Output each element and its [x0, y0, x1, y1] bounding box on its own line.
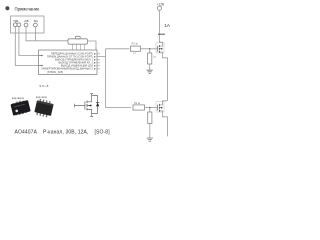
tick on supply wire	[158, 33, 165, 35]
wire R1 to gate	[141, 48, 158, 50]
svg-text:вид сверху: вид сверху	[12, 97, 25, 100]
body diode loop	[92, 96, 98, 114]
IC photo right	[34, 98, 54, 118]
wire to R2	[106, 107, 132, 109]
diode bar	[96, 102, 99, 104]
wire T2 to component X1	[26, 27, 68, 41]
legend MOSFET symbol	[75, 94, 100, 117]
svg-text:Примечание: Примечание	[15, 6, 40, 11]
node junction 1	[149, 48, 151, 50]
ground 1	[147, 70, 153, 73]
terminal T1 double circle	[13, 23, 17, 27]
wire terminal to Q1 drain	[159, 10, 162, 42]
power terminal	[157, 6, 161, 10]
source lead	[87, 109, 93, 116]
svg-text:10к: 10к	[153, 57, 156, 59]
wire R4 to ground	[149, 124, 151, 139]
wire T1b to MCU box	[19, 27, 39, 56]
X1 legs	[72, 44, 84, 50]
transistor Q1	[157, 46, 159, 52]
resistor R2	[133, 105, 145, 110]
ground 2	[147, 138, 153, 141]
wire T1a to MCU box	[15, 27, 38, 66]
diode triangle	[96, 103, 99, 106]
connector J1 box	[11, 16, 45, 33]
wire T3 stub	[34, 27, 36, 41]
wire R2 to gate	[145, 107, 158, 109]
svg-text:вид снизу: вид снизу	[36, 96, 48, 99]
resistor R3 vertical	[149, 49, 151, 53]
U1 pin text lines	[42, 52, 94, 71]
U1 right pin stubs	[97, 54, 106, 69]
terminal T3	[34, 23, 38, 27]
title bullet	[5, 6, 9, 10]
gate bar	[84, 101, 86, 110]
U1 right line arrows	[94, 53, 96, 70]
transistor Q2	[157, 105, 159, 111]
resistor R4 vertical	[149, 108, 151, 112]
svg-text:R1 1к: R1 1к	[132, 43, 139, 46]
svg-text:+12В: +12В	[157, 3, 165, 7]
IC photo left	[10, 99, 31, 117]
svg-text:ПД1: ПД1	[14, 19, 20, 23]
component X1 body	[68, 39, 88, 44]
node junction 2	[149, 107, 151, 109]
wire to R1	[106, 48, 130, 50]
wire R3 to ground	[149, 64, 151, 70]
mid tap	[87, 105, 92, 107]
svg-text:SO-8: SO-8	[39, 84, 49, 88]
U1 left entry arrows	[39, 56, 41, 66]
svg-text:1А: 1А	[164, 23, 170, 28]
transistor Q1 outline box	[156, 43, 164, 53]
drain lead	[87, 94, 93, 102]
component X1 knob	[75, 36, 80, 39]
svg-text:AO4407A P-канал, 30В, 12А,: AO4407A P-канал, 30В, 12А, [SO-8]	[15, 130, 111, 136]
resistor R1	[131, 46, 141, 51]
gate lead	[75, 104, 85, 107]
svg-text:(STM8L_S05): (STM8L_S05)	[47, 70, 63, 74]
MCU box U1	[39, 50, 98, 75]
svg-text:+5В: +5В	[24, 19, 29, 23]
svg-text:SIG: SIG	[34, 19, 38, 23]
channel bar	[86, 101, 88, 111]
channel arrow	[88, 105, 91, 107]
wire X1 to MCU top	[88, 41, 97, 50]
svg-text:R2 1к: R2 1к	[134, 102, 141, 105]
transistor Q2 outline box	[156, 102, 164, 112]
terminal T2	[24, 23, 28, 27]
wire bus vertical	[105, 49, 107, 108]
